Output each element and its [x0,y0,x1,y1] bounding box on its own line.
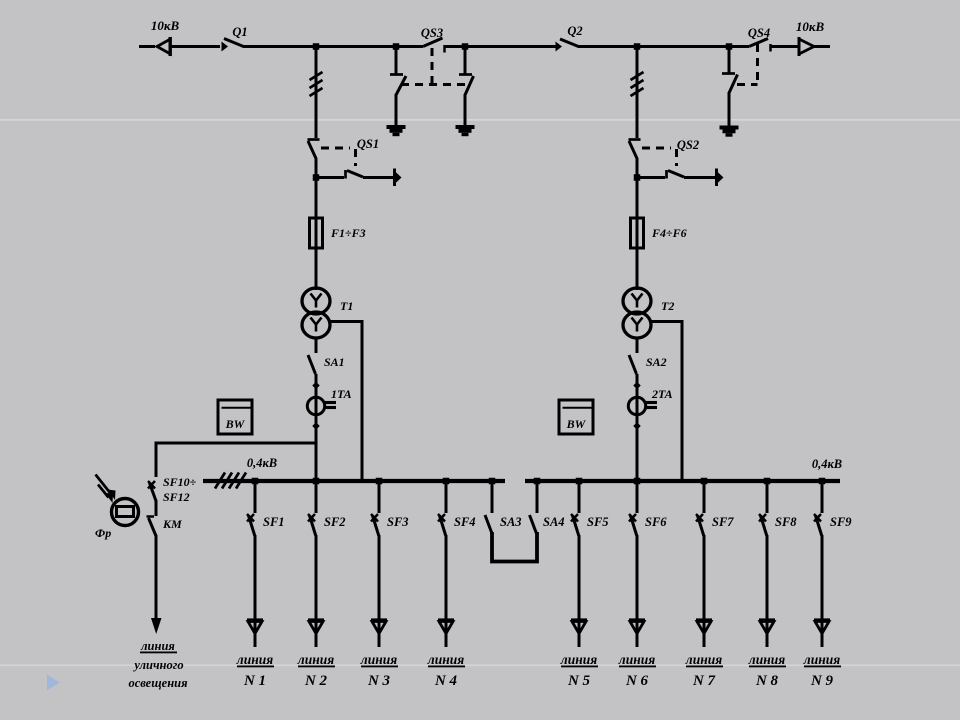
svg-text:SF2: SF2 [324,515,346,529]
wire: feeder SF4 line [445,535,448,647]
svg-text:линия: линия [685,652,722,667]
feeder terminal arrow 2 [308,618,324,621]
wire: feeder SF6 line [636,535,639,647]
svg-text:освещения: освещения [128,676,188,690]
svg-text:QS2: QS2 [677,138,699,152]
QS4 mechanical linkage (dashed) [756,44,759,84]
wire: feeder SF5 line [578,535,581,647]
svg-text:SF10÷: SF10÷ [163,475,197,489]
svg-text:линия: линия [803,652,840,667]
svg-text:N 3: N 3 [367,673,391,689]
disconnector QS3 main blade [423,38,443,47]
svg-text:Q2: Q2 [567,24,582,38]
bus 0,4кВ section 1 [203,479,505,483]
svg-text:2TA: 2TA [651,387,673,401]
meter box BW (left) [218,400,252,434]
node: QS3 right earth tap [462,43,469,50]
switch SA1 [315,338,318,353]
svg-text:SF4: SF4 [454,515,476,529]
breaker SF1 [252,478,259,485]
disconnector QS4 main blade [749,39,768,47]
QS1 linkage (dashed) [321,147,350,150]
10kV incoming terminal (left) [139,45,155,48]
svg-text:SF6: SF6 [645,515,667,529]
node: QS1 jumper tap [313,174,320,181]
phase marks (4) on bus 1 [215,473,225,489]
breaker SF4 [443,478,450,485]
ground (QS3 right) [456,125,475,129]
wire: T1 secondary bypass to bus [329,322,362,482]
svg-text:N 7: N 7 [692,673,716,689]
switch SA2 [636,338,639,353]
svg-text:N 4: N 4 [434,673,458,689]
node below 2TA [633,422,641,430]
breaker SF3 [376,478,383,485]
breaker SF8 [764,478,771,485]
QS2 linkage (dashed) [642,147,671,150]
arrow: QS1 jumper terminal [393,169,396,187]
contactor KM [147,515,155,518]
wire: T2 secondary bypass to bus [650,322,682,482]
svg-text:КМ: КМ [162,517,182,531]
svg-text:линия: линия [297,652,334,667]
feeder terminal arrow 3 [371,618,387,621]
node: QS2 jumper tap [634,174,641,181]
wire: feeder SF7 line [703,535,706,647]
ground (QS4) [720,126,739,130]
wire: T1 HV drop [315,47,318,139]
transformer T2 (star-star) [623,288,651,314]
node above 1TA [312,382,320,390]
svg-text:N 6: N 6 [625,673,649,689]
svg-text:SF9: SF9 [830,515,852,529]
node: QS4 earth tap [726,43,733,50]
wire: feeder SF1 line [254,535,257,647]
breaker SF10-SF12 [148,481,155,489]
ground (QS3 left) [387,125,406,129]
feeder terminal arrow 4 [438,618,454,621]
wire: feeder SF2 line [315,535,318,647]
wire: feeder SF9 line [821,535,824,647]
disconnector QS1 [308,138,320,141]
svg-text:SF3: SF3 [387,515,409,529]
svg-text:SA2: SA2 [646,355,667,369]
svg-text:SF7: SF7 [712,515,734,529]
breaker Q2 [556,42,563,52]
svg-text:линия: линия [140,639,175,653]
transformer T1 (star-star) [302,288,330,314]
wire: SF10 to KM [155,500,158,516]
svg-text:линия: линия [360,652,397,667]
photo relay Фр [112,499,139,526]
svg-text:BW: BW [566,417,587,431]
svg-text:T2: T2 [661,299,674,313]
wire: 10kV line, QS3 to Q2 [444,45,556,48]
svg-text:QS1: QS1 [357,137,379,151]
svg-text:QS4: QS4 [748,26,770,40]
arrow: QS2 jumper terminal [715,169,718,187]
wire: street lighting line down [155,535,158,619]
feeder terminal arrow 9 [814,618,830,621]
phase marks (3) on T2 drop [631,72,644,80]
svg-text:SA1: SA1 [324,355,345,369]
wire: feeder SF8 line [766,535,769,647]
wire: 10kV line, Q1 to QS3 [243,45,423,48]
fuse F4÷F6 [631,218,644,248]
feeder terminal arrow 5 [571,618,587,621]
switch SA4 (bus tie) [534,478,541,485]
10kV outgoing terminal (right) [799,39,814,54]
QS4 earthing switch [728,47,731,73]
QS3 right earthing switch [464,47,467,74]
svg-text:10кВ: 10кВ [796,19,825,34]
bus 0,4кВ section 2 [525,479,840,483]
svg-text:N 2: N 2 [304,673,328,689]
svg-text:10кВ: 10кВ [151,18,180,33]
feeder terminal arrow 1 [247,618,263,621]
fuse F1÷F3 [310,218,323,248]
wire: feeder SF3 line [378,535,381,647]
svg-text:линия: линия [427,652,464,667]
svg-text:1TA: 1TA [331,387,352,401]
svg-text:0,4кВ: 0,4кВ [812,457,842,471]
wire: SA2 to CT 2TA [636,374,639,481]
breaker SF9 [819,478,826,485]
breaker Q1 [222,42,229,52]
svg-text:линия: линия [618,652,655,667]
svg-text:T1: T1 [340,299,353,313]
current transformer 1TA [307,397,324,414]
svg-text:SF8: SF8 [775,515,797,529]
svg-text:N 9: N 9 [810,673,834,689]
slide nav arrow [47,675,60,691]
switch SA3 (bus tie) [489,478,496,485]
wire: street lighting tap [156,442,316,445]
node: T2 feeder tap [634,43,641,50]
phase marks (3) on T1 drop [310,72,323,80]
node below 1TA [312,422,320,430]
svg-text:BW: BW [225,417,246,431]
svg-text:линия: линия [560,652,597,667]
svg-text:N 8: N 8 [755,673,779,689]
feeder terminal arrow 6 [629,618,645,621]
svg-text:N 1: N 1 [243,673,266,689]
wire: 10kV line, QS4 to right terminal [770,45,799,48]
svg-text:SA4: SA4 [543,515,565,529]
breaker SF6 [634,478,641,485]
wire: T2 HV drop [636,47,639,139]
wire: QS2 jumper link [637,176,665,179]
svg-text:N 5: N 5 [567,673,591,689]
svg-text:SF5: SF5 [587,515,609,529]
svg-text:F4÷F6: F4÷F6 [651,226,687,240]
wire: QS1 jumper link [316,176,344,179]
svg-text:уличного: уличного [132,658,183,672]
wire: QS1 to fuse F1-F3 [315,158,318,290]
node above 2TA [633,382,641,390]
wire: bus tie link [492,532,537,562]
wire: QS2 to fuse F4-F6 [636,158,639,290]
svg-text:SF1: SF1 [263,515,285,529]
wire: 10kV line, terminal to Q1 [170,45,220,48]
node: QS3 left earth tap [393,43,400,50]
breaker SF7 [701,478,708,485]
svg-text:QS3: QS3 [421,26,443,40]
svg-text:Фр: Фр [95,526,111,540]
svg-text:0,4кВ: 0,4кВ [247,456,277,470]
wire: 10kV line, Q2 to QS4 [578,45,749,48]
breaker SF5 [576,478,583,485]
QS3 left earthing switch [395,47,398,74]
disconnector QS2 [629,138,641,141]
arrow: street lighting outgoing [151,618,162,634]
svg-text:линия: линия [236,652,273,667]
breaker SF2 [313,478,320,485]
svg-text:SF12: SF12 [163,490,190,504]
feeder terminal arrow 7 [696,618,712,621]
svg-text:SA3: SA3 [500,515,522,529]
node: T1 feeder tap [313,43,320,50]
wire: SA1 to CT 1TA [315,374,318,481]
meter box BW (right) [559,400,593,434]
current transformer 2TA [628,397,645,414]
svg-text:F1÷F3: F1÷F3 [330,226,366,240]
feeder terminal arrow 8 [759,618,775,621]
QS3 mechanical linkage (dashed) [431,48,434,84]
svg-text:линия: линия [748,652,785,667]
svg-text:Q1: Q1 [232,25,247,39]
